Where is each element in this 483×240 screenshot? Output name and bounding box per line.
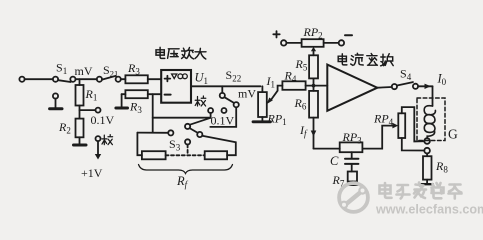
calibration terminal 校 bbox=[95, 136, 101, 159]
Rf underbrace bbox=[139, 165, 233, 174]
summing node bbox=[312, 84, 316, 88]
RP4 bottom wire to R8 node bbox=[402, 138, 425, 151]
resistor Rf left section bbox=[142, 151, 166, 159]
电流变换 heading bbox=[338, 53, 393, 65]
S22 calibration contacts bbox=[208, 108, 226, 118]
resistor R2 bbox=[76, 119, 84, 144]
svg-text:+1V: +1V bbox=[81, 166, 103, 180]
wire mV node to S21 bbox=[76, 78, 97, 80]
svg-text:0.1V: 0.1V bbox=[211, 114, 235, 128]
I0 output wire with arrow bbox=[418, 84, 432, 106]
switch S1 bbox=[53, 77, 76, 82]
wire R3 to +input bbox=[148, 78, 161, 80]
op-amp U1 bbox=[161, 70, 191, 103]
watermark logo bbox=[339, 183, 368, 212]
电压放大 heading bbox=[156, 47, 206, 59]
ground under R7 bbox=[347, 182, 358, 185]
RP4 wiper arrowhead bbox=[392, 123, 398, 129]
ground under R2 bbox=[74, 144, 87, 147]
校 label at calibration terminal bbox=[102, 135, 113, 145]
R8 top terminal bbox=[424, 148, 430, 154]
input terminal bbox=[19, 77, 24, 82]
RP1 wiper to R4 bbox=[267, 86, 283, 105]
ground at R3 bottom left bbox=[116, 94, 128, 108]
capacitor C bbox=[345, 152, 358, 171]
wire S3 to Rf right corner bbox=[202, 136, 236, 155]
resistor R1 bbox=[76, 79, 84, 118]
S3 left contact bbox=[168, 130, 173, 135]
S3 blade bbox=[190, 128, 198, 133]
resistor R3 bottom bbox=[125, 90, 147, 98]
potentiometer RP2 bbox=[302, 39, 324, 47]
S4 switch bbox=[377, 82, 418, 89]
potentiometer RP4 bbox=[398, 113, 405, 138]
dashed tap wire bbox=[187, 145, 189, 156]
wire to S3 left contact bbox=[137, 132, 168, 134]
svg-text:mV: mV bbox=[75, 64, 93, 78]
svg-text:G: G bbox=[448, 127, 458, 142]
potentiometer RP1 bbox=[253, 86, 271, 122]
switch S21 bbox=[97, 76, 121, 82]
resistor R7 bbox=[348, 172, 357, 182]
current converter amplifier bbox=[327, 65, 377, 111]
S3 moving contact bbox=[197, 132, 202, 137]
S1 ground contact bbox=[50, 93, 62, 108]
resistor R3 top bbox=[125, 75, 147, 83]
resistor Rf right section bbox=[205, 151, 227, 159]
G bottom terminal bbox=[424, 138, 430, 144]
wire RP3 to RP4 wiper bbox=[362, 126, 393, 149]
If feedback wire down from R6 bbox=[311, 118, 317, 149]
resistor R6 bbox=[309, 91, 318, 118]
galvanometer dashed frame bbox=[417, 98, 445, 141]
resistor R4 bbox=[282, 81, 305, 90]
RP4 top wire to G terminal bbox=[402, 107, 425, 141]
0.1V tap node bbox=[80, 108, 101, 113]
wire calib contact to feedback line bbox=[153, 117, 211, 119]
S3 pivot contact bbox=[185, 124, 190, 129]
wire S21 to R3 bbox=[121, 78, 126, 80]
- supply terminal bbox=[324, 35, 352, 45]
feedback loop left vertical bbox=[137, 133, 142, 156]
wire to RP3 bbox=[314, 148, 340, 150]
dashed Rf middle bbox=[166, 154, 205, 156]
+ supply terminal bbox=[273, 31, 301, 46]
output wire U1 bbox=[191, 85, 261, 87]
S3 middle tap contact bbox=[185, 139, 190, 144]
svg-text:0.1V: 0.1V bbox=[91, 113, 115, 127]
potentiometer RP3 bbox=[340, 142, 363, 152]
S22 mV-side contact bbox=[210, 102, 238, 127]
resistor R8 bbox=[422, 153, 433, 184]
S3 pivot wire to calib line bbox=[190, 118, 211, 125]
校 label near U1 bbox=[195, 96, 206, 106]
wire R5 to node bbox=[313, 78, 315, 91]
feedback vertical wire bbox=[152, 94, 154, 132]
wire R4 to summing node bbox=[306, 85, 328, 87]
svg-text:www.elecfans.com: www.elecfans.com bbox=[375, 203, 483, 217]
switch S22 common contact bbox=[220, 86, 234, 103]
RP2 wiper down to R5 bbox=[311, 47, 316, 56]
galvanometer coil bbox=[424, 106, 435, 139]
wire R3 bottom to -input bbox=[148, 93, 161, 95]
wire input to S1 bbox=[25, 78, 53, 80]
svg-text:C: C bbox=[330, 154, 339, 168]
resistor R5 bbox=[309, 55, 318, 78]
svg-text:mV: mV bbox=[238, 87, 256, 101]
watermark 电子发烧友 bbox=[380, 183, 462, 199]
